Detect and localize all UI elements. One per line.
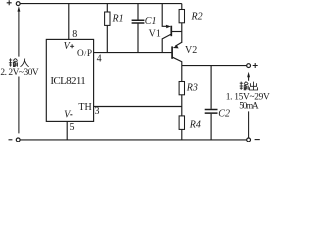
- node output - terminal: [247, 138, 251, 142]
- resistor R1: [105, 4, 110, 53]
- svg-text:TH: TH: [78, 102, 91, 113]
- label 输入 (input) hand-drawn: [9, 58, 29, 66]
- svg-text:P: P: [87, 49, 92, 59]
- transistor V2: [172, 42, 182, 65]
- svg-text:V1: V1: [149, 28, 161, 39]
- resistor R3: [179, 66, 184, 116]
- wire input label arrow: [17, 6, 20, 133]
- node output minus sign: [255, 139, 260, 141]
- label 输出 (output) hand-drawn: [240, 82, 258, 90]
- wire output rail: [182, 65, 247, 67]
- capacitor C2: [205, 66, 218, 140]
- svg-text:R1: R1: [112, 14, 124, 25]
- wire pin 8: [68, 4, 70, 40]
- resistor R2: [179, 4, 184, 43]
- wire output label arrow: [247, 72, 250, 138]
- node input + terminal: [16, 2, 20, 6]
- node input minus sign: [9, 139, 13, 141]
- svg-text:R4: R4: [189, 119, 201, 130]
- svg-text:ICL8211: ICL8211: [50, 75, 85, 87]
- wire bottom rail: [20, 139, 247, 141]
- capacitor C1: [132, 4, 145, 53]
- svg-text:50mA: 50mA: [239, 102, 259, 112]
- svg-text:C2: C2: [218, 108, 230, 119]
- node output plus sign: [253, 63, 258, 68]
- svg-text:5: 5: [70, 122, 75, 133]
- svg-text:4: 4: [97, 53, 102, 64]
- char 输 of 输出: [240, 82, 249, 90]
- node input - terminal: [16, 138, 20, 142]
- svg-text:3: 3: [95, 106, 100, 117]
- wire pin 3 TH line: [94, 106, 182, 108]
- node output + terminal: [247, 64, 251, 68]
- wire top rail: [20, 3, 182, 5]
- svg-text:C1: C1: [145, 16, 157, 27]
- svg-text:V2: V2: [185, 45, 197, 56]
- wire pin 4 O/P line: [94, 52, 172, 54]
- svg-text:R2: R2: [191, 11, 203, 22]
- transistor V1: [162, 4, 182, 53]
- svg-text:2. 2V~30V: 2. 2V~30V: [0, 68, 39, 78]
- char 出 of 输出: [249, 82, 257, 90]
- svg-text:R3: R3: [186, 82, 198, 93]
- svg-text:8: 8: [72, 29, 77, 40]
- resistor R4: [179, 116, 184, 140]
- node input plus sign: [7, 0, 12, 5]
- char 入 of 输入: [21, 59, 29, 67]
- char 输 of 输入: [9, 58, 18, 66]
- svg-text:O: O: [77, 49, 84, 59]
- IC U1 ICL8211: [46, 39, 93, 121]
- wire pin 5: [66, 121, 68, 139]
